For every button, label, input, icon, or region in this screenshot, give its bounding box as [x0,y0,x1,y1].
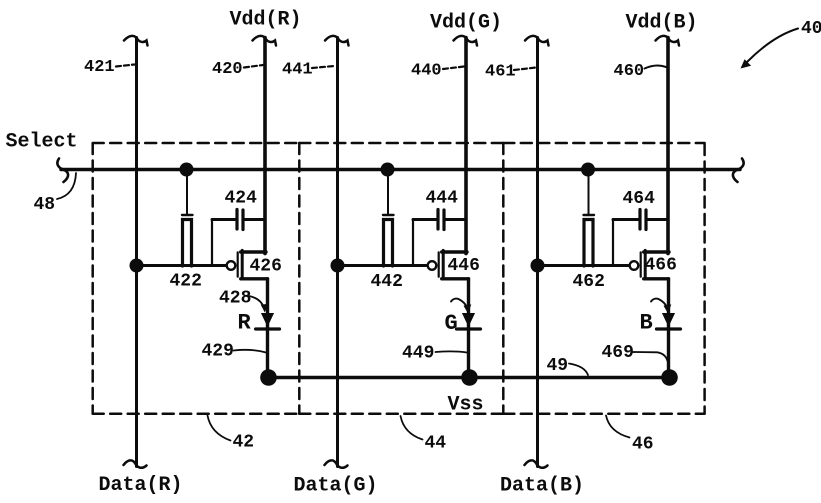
capacitor 444 [413,210,466,230]
wire drive output to LED and Vss (cell R) [266,279,269,378]
svg-text:440: 440 [411,62,442,81]
wire source/gate row (cell B) [538,264,629,267]
node data junction on Data(B) [531,259,545,273]
svg-text:42: 42 [233,433,255,453]
440 leader [443,67,464,70]
svg-text:428: 428 [219,289,251,309]
transistor 462 (select TFT) [584,215,595,266]
469 leader [633,352,668,361]
label 40 leader arrow [741,29,799,69]
select line right break squiggle [733,159,744,183]
Data(R) top break squiggle [124,36,148,46]
wire drive output to LED and Vss (cell B) [667,279,670,378]
node gate junction on Select (cell B) [581,163,595,177]
svg-text:G: G [445,311,458,336]
leader arrow to LED G [451,299,471,314]
svg-text:461: 461 [485,63,516,82]
Data(B) bottom break squiggle [525,460,548,467]
node gate junction on Select (cell G) [381,163,395,177]
wire riser to capacitor (cell B) [612,220,614,266]
subpixel box 46 (dashed) [503,143,704,414]
wire gate lead of select transistor (cell R) [186,170,188,215]
wire Data(G) line [336,38,339,467]
transistor 466 (drive TFT, p-type) [630,250,669,278]
wire riser to capacitor (cell R) [211,220,213,266]
svg-text:46: 46 [632,435,654,455]
42 leader [208,416,231,441]
LED R (organic EL element) [256,314,280,330]
46 leader [606,416,630,438]
svg-text:424: 424 [225,189,258,209]
Vdd(G) top break squiggle [454,36,478,46]
capacitor 464 [613,210,668,230]
449 leader [436,351,468,352]
LED G (organic EL element) [457,314,481,330]
svg-text:462: 462 [573,272,605,292]
Data(R) bottom break squiggle [124,460,147,467]
svg-text:442: 442 [371,272,403,292]
svg-text:420: 420 [212,60,243,79]
transistor 426 (drive TFT, p-type) [227,250,268,278]
wire gate lead of select transistor (cell G) [387,170,389,215]
svg-text:426: 426 [250,257,282,277]
subpixel box 44 (dashed) [299,143,503,414]
svg-text:R: R [238,311,252,336]
Vdd(B) top break squiggle [656,36,680,46]
transistor 446 (drive TFT, p-type) [428,250,469,278]
Vss line (net Vss) [268,376,669,380]
wire Data(R) line [135,38,138,467]
svg-text:422: 422 [170,272,202,292]
leader arrow to LED B [651,299,671,314]
svg-text:Vdd(R): Vdd(R) [230,9,302,32]
subpixel box 42 (dashed) [93,143,300,414]
svg-text:Vdd(B): Vdd(B) [626,12,698,35]
svg-text:466: 466 [645,256,677,276]
node Vss junction (cell G) [461,369,478,386]
node Vss junction (cell R) [260,369,277,386]
48 leader [57,173,76,199]
svg-text:464: 464 [623,189,656,209]
svg-text:Vss: Vss [448,394,484,417]
wire Data(B) line [536,38,539,467]
wire Vdd(B) line [666,38,670,254]
node data junction on Data(R) [130,259,144,273]
node Vss junction (cell B) [661,369,678,386]
wire Vdd(R) line [263,38,267,254]
wire drive output to LED and Vss (cell G) [467,279,470,378]
transistor 422 (select TFT) [182,215,193,266]
wire Vdd(G) line [464,38,468,254]
svg-text:49: 49 [547,356,569,376]
select line left break squiggle [57,159,68,183]
460 leader [645,66,667,69]
wire riser to capacitor (cell G) [412,220,414,266]
svg-text:B: B [640,311,653,336]
429 leader [234,350,267,353]
svg-text:40: 40 [801,19,821,39]
select line (net Select) [61,168,740,172]
svg-text:421: 421 [84,58,115,77]
421 leader [116,65,135,67]
svg-text:449: 449 [402,344,434,364]
LED B (organic EL element) [657,314,681,330]
svg-text:469: 469 [602,343,634,363]
49 leader [569,364,588,376]
44 leader [401,416,423,440]
svg-text:429: 429 [202,342,234,362]
svg-text:Vdd(G): Vdd(G) [430,12,502,35]
420 leader [244,65,263,68]
wire gate lead of select transistor (cell B) [588,170,590,215]
label 428 leader arrow to LED R [249,296,268,313]
svg-text:Select: Select [6,131,78,154]
svg-text:446: 446 [448,256,480,276]
Vdd(R) top break squiggle [253,36,277,46]
Data(G) bottom break squiggle [325,460,348,467]
461 leader [514,68,536,71]
svg-text:Data(G): Data(G) [294,475,378,498]
node gate junction on Select (cell R) [180,163,194,177]
svg-text:Data(B): Data(B) [500,475,584,498]
wire source/gate row (cell G) [338,264,427,267]
capacitor 424 [212,210,265,230]
wire source/gate row (cell R) [137,264,226,267]
svg-text:444: 444 [426,189,459,209]
transistor 442 (select TFT) [383,215,394,266]
node data junction on Data(G) [331,259,345,273]
441 leader [312,66,334,68]
svg-text:460: 460 [614,62,645,81]
svg-text:48: 48 [34,195,56,215]
svg-text:441: 441 [282,61,313,80]
Data(B) top break squiggle [525,36,549,46]
svg-text:44: 44 [425,434,447,454]
svg-text:Data(R): Data(R) [99,474,183,497]
Data(G) top break squiggle [325,36,349,46]
